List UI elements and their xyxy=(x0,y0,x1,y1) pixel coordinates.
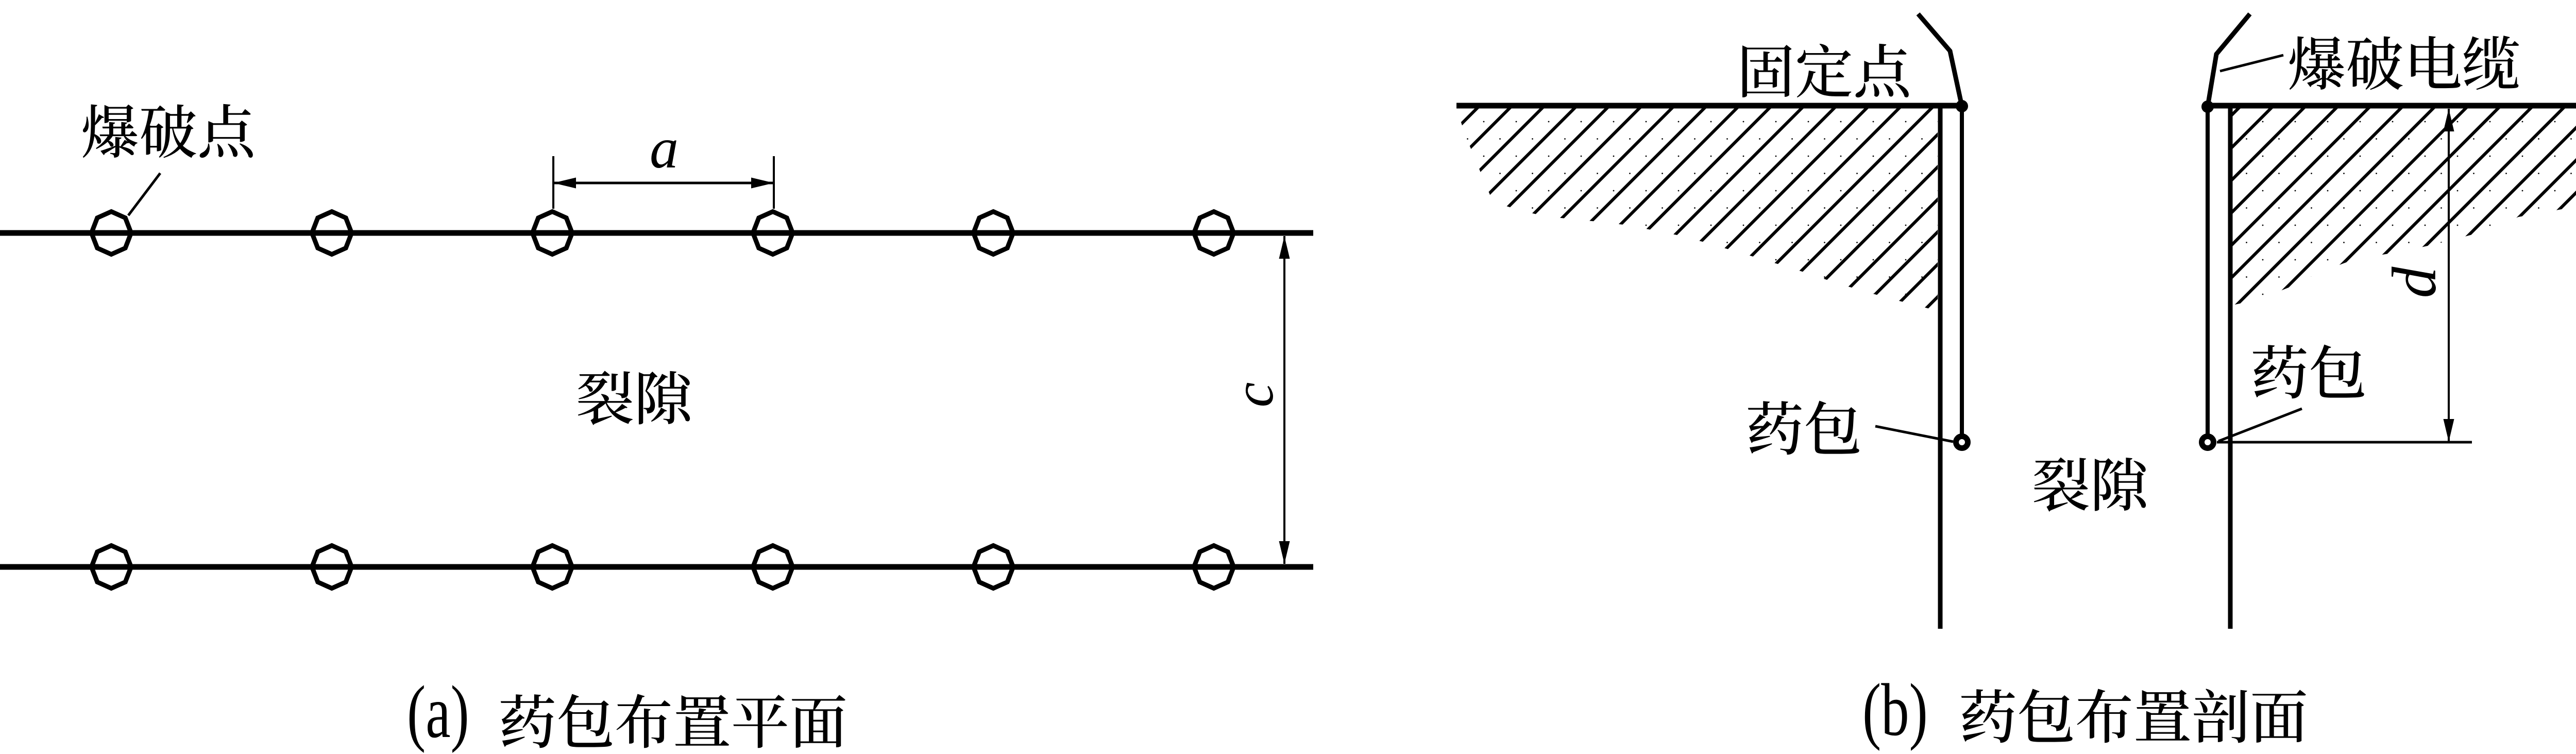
blast point 4 top row xyxy=(753,212,793,255)
ground surface line left xyxy=(1456,103,1964,109)
blasting cable right (above ground bend) xyxy=(2208,14,2250,107)
blasting cable left (down fissure) xyxy=(1960,106,1964,434)
leader line to blasting cable xyxy=(2220,55,2283,71)
svg-text:(b): (b) xyxy=(1862,668,1928,751)
blast point 5 bottom row xyxy=(974,546,1013,589)
blasting cable left (above ground bend) xyxy=(1918,14,1962,106)
dimension a: dimension line xyxy=(553,182,774,185)
blast point 2 bottom row xyxy=(312,546,352,589)
fissure right wall xyxy=(2228,106,2233,629)
ground hatch region left of fissure xyxy=(1456,108,1938,310)
blast point 3 bottom row xyxy=(533,546,572,589)
wire: top row line of blast points xyxy=(0,230,1313,236)
dimension a: extension line right xyxy=(773,156,775,209)
ground surface line right xyxy=(2208,103,2576,109)
label: charge right xyxy=(2253,345,2364,399)
label: blast point (baopodian) xyxy=(83,104,253,158)
svg-text:d: d xyxy=(2380,266,2449,298)
label: fixed point (gudingdian) xyxy=(1742,44,1909,97)
blast point 1 bottom row xyxy=(92,546,131,589)
dimension d: bottom arrowhead xyxy=(2444,419,2454,442)
dimension a: left arrowhead xyxy=(553,178,576,189)
dimension a: extension line left xyxy=(552,156,554,209)
fixed point dot left xyxy=(1956,100,1968,112)
dimension c: bottom arrowhead xyxy=(1279,541,1290,564)
blast point 4 bottom row xyxy=(753,546,793,589)
dimension d: reference line at charge level xyxy=(2217,441,2472,444)
label: fissure (liexi) in plan view xyxy=(578,371,690,425)
fixed point dot right xyxy=(2201,100,2214,113)
blast point 6 top row xyxy=(1194,212,1234,255)
blast point 2 top row xyxy=(312,212,352,255)
label: fissure (liexi) in section view xyxy=(2034,457,2146,511)
charge (yaobao) circle right xyxy=(2202,437,2214,448)
fissure left wall xyxy=(1938,106,1943,629)
leader line to left charge xyxy=(1875,426,1953,442)
leader line to right charge xyxy=(2218,409,2302,441)
dimension d: top arrowhead xyxy=(2444,109,2454,131)
dimension c: dimension line xyxy=(1283,236,1285,564)
svg-text:a: a xyxy=(650,116,679,180)
blast point 6 bottom row xyxy=(1194,546,1234,589)
dimension c: top arrowhead xyxy=(1279,236,1290,259)
wire: bottom row line of blast points xyxy=(0,564,1313,570)
label: charge left xyxy=(1748,401,1859,455)
leader line to blast point 1 xyxy=(128,173,160,215)
blast point 5 top row xyxy=(974,212,1013,255)
dimension d: dimension line xyxy=(2448,109,2450,442)
blast point 1 top row xyxy=(92,212,131,255)
svg-text:c: c xyxy=(1222,382,1285,408)
caption (a): charge layout plan xyxy=(501,694,845,748)
ground hatch region right of fissure xyxy=(2232,108,2576,305)
charge (yaobao) circle left xyxy=(1956,437,1968,448)
caption (b): charge layout section xyxy=(1961,689,2306,743)
dimension a: right arrowhead xyxy=(751,178,774,189)
blasting cable right (down fissure) xyxy=(2206,107,2210,434)
label: blasting cable (baopo dianlan) xyxy=(2290,36,2519,90)
blast point 3 top row xyxy=(533,212,572,255)
svg-text:(a): (a) xyxy=(407,671,469,753)
